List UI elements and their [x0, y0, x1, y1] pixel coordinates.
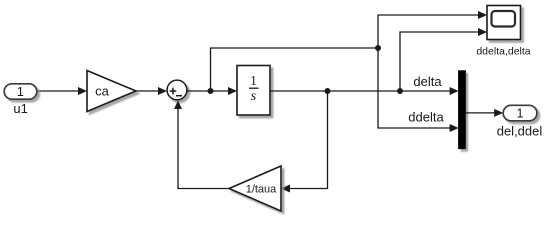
svg-text:ca: ca: [95, 84, 110, 99]
svg-text:del,ddel: del,ddel: [497, 124, 543, 139]
scope screen: [492, 11, 516, 27]
wire sum to integrator: [187, 87, 237, 95]
scope ddelta,delta: [487, 6, 521, 40]
inport u1: [4, 84, 37, 99]
wire node B to scope input 1: [378, 11, 487, 48]
gain 1/taua: [229, 166, 281, 211]
sum junction S1: [167, 80, 187, 100]
outport del,ddel: [503, 105, 537, 121]
svg-text:u1: u1: [13, 101, 27, 116]
svg-text:ddelta: ddelta: [408, 110, 444, 125]
wire integrator to mux input 1 (delta): [270, 87, 459, 95]
minus sign: [176, 95, 182, 97]
integrator U1 1/s: [237, 66, 270, 116]
node C (feedback tap): [325, 88, 331, 94]
wire gain 1/taua to sum bottom input: [174, 101, 229, 189]
svg-text:1/taua: 1/taua: [246, 184, 277, 196]
plus sign: [170, 88, 177, 95]
node B: [375, 45, 381, 51]
svg-text:1: 1: [250, 73, 257, 88]
wire inport u1 to gain ca: [37, 87, 87, 95]
svg-text:1: 1: [17, 85, 24, 99]
wire node D up to scope input 2: [400, 28, 487, 91]
node D (scope tap): [397, 88, 403, 94]
gain ca: [87, 71, 136, 112]
mux M1: [459, 71, 466, 149]
wire mux to outport: [465, 109, 503, 117]
svg-text:delta: delta: [413, 74, 442, 89]
wire gain ca to sum: [136, 87, 167, 95]
svg-text:ddelta,delta: ddelta,delta: [476, 46, 530, 58]
wire node C down to gain 1/taua: [281, 91, 328, 193]
wire ddelta branch up to node B: [211, 48, 379, 91]
wire node B down to mux input 2 (ddelta): [378, 48, 459, 132]
svg-text:1: 1: [517, 107, 524, 121]
node after sum: [208, 88, 214, 94]
svg-text:s: s: [251, 89, 257, 104]
